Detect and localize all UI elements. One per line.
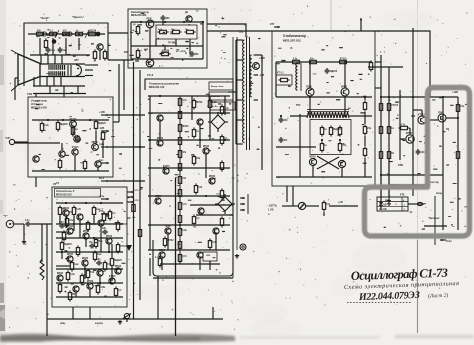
junction [339, 139, 341, 141]
resistor [93, 250, 102, 261]
svg-text:КТ2: КТ2 [99, 210, 104, 213]
svg-text:МЕВ.101: МЕВ.101 [211, 96, 221, 98]
ferrite bead [417, 202, 422, 205]
transformer TR2 winding zigzag [307, 112, 349, 118]
block box A4 Усилитель У [52, 187, 127, 307]
svg-text:+пВ: +пВ [338, 201, 343, 204]
arrow [101, 180, 109, 182]
wire bus [148, 95, 230, 97]
svg-text:МП42: МП42 [83, 230, 90, 233]
wire [323, 212, 325, 216]
wire [74, 156, 76, 171]
wire [161, 258, 163, 270]
arrow [101, 198, 109, 200]
resistor [76, 245, 79, 256]
wire [261, 55, 263, 170]
junction [96, 32, 101, 37]
resistor [178, 239, 181, 250]
resistor [163, 236, 174, 247]
resistor R69 [456, 102, 465, 113]
junction [149, 139, 151, 141]
junction [205, 195, 207, 197]
wire bus top [131, 21, 203, 23]
capacitor [279, 137, 289, 143]
arrow [101, 130, 109, 132]
svg-text:0,05: 0,05 [76, 209, 81, 211]
wire top bus [56, 202, 123, 204]
wire [306, 205, 319, 207]
resistor R17 [56, 120, 68, 131]
wire bus [148, 195, 230, 197]
resistor R1 [34, 30, 45, 35]
resistor [116, 242, 127, 253]
svg-text:МП26: МП26 [82, 258, 89, 260]
resistor [178, 161, 181, 172]
resistor [58, 205, 67, 216]
potentiometer arrow [55, 30, 59, 38]
wire [159, 121, 161, 140]
wire [41, 224, 43, 232]
wire [31, 223, 52, 225]
junction [380, 96, 382, 98]
wire stub [157, 276, 159, 319]
svg-text:корпус: корпус [95, 322, 104, 325]
transformer taps right [254, 54, 258, 56]
transistor [197, 119, 203, 125]
resistor [329, 125, 341, 136]
bridge rectifier VD1 [208, 112, 228, 132]
junction [139, 146, 141, 148]
wire bottom bus [56, 296, 123, 298]
wire [97, 167, 99, 171]
wire bus [33, 93, 86, 95]
svg-text:МД226: МД226 [330, 71, 338, 73]
wire [309, 62, 311, 88]
wire [196, 214, 233, 216]
svg-text:вх.X: вх.X [99, 177, 104, 180]
transistor T15 [418, 114, 426, 124]
resistor R12 [136, 24, 139, 35]
wire [299, 114, 301, 177]
resistor R51 [290, 58, 301, 63]
wire top bus [28, 33, 105, 35]
svg-text:общ.: общ. [60, 322, 66, 325]
wire [375, 61, 381, 63]
arrow [240, 203, 245, 205]
svg-text:конт 9д: конт 9д [430, 182, 439, 184]
junction [412, 96, 414, 98]
wire rail x133 [133, 62, 135, 312]
svg-text:КТ315: КТ315 [109, 276, 116, 278]
wire [89, 289, 91, 297]
svg-text:МП42: МП42 [63, 207, 70, 210]
wire bus mid [131, 45, 203, 47]
svg-text:Цепь: Цепь [385, 200, 391, 202]
wire stub [212, 307, 214, 319]
resistor R8 [103, 49, 106, 60]
transformer taps left [236, 39, 243, 41]
resistor [80, 273, 83, 284]
winding [250, 55, 252, 97]
svg-text:КТ 0,1: КТ 0,1 [277, 73, 284, 75]
wire [276, 96, 372, 98]
svg-text:Откл: Откл [446, 241, 452, 243]
svg-text:МД226: МД226 [60, 124, 68, 126]
transistor [159, 250, 166, 258]
svg-text:МП26: МП26 [92, 142, 99, 144]
svg-text:МД226: МД226 [64, 244, 72, 246]
svg-text:10н: 10н [460, 106, 465, 108]
wire bus [148, 249, 230, 251]
junction [62, 119, 64, 121]
svg-text:МП26: МП26 [115, 266, 122, 268]
svg-text:КТ7: КТ7 [270, 23, 275, 26]
svg-text:МП42: МП42 [57, 272, 64, 275]
wire bus [148, 112, 230, 114]
resistor R22 [83, 159, 86, 170]
svg-text:КТ315: КТ315 [120, 246, 127, 248]
capacitor C1 [161, 15, 171, 21]
wire face stub bottom [11, 85, 18, 91]
resistor [96, 283, 106, 294]
arrow [101, 213, 109, 215]
transistor [98, 220, 104, 226]
wire column [179, 96, 181, 264]
capacitor C9 [102, 228, 108, 234]
wire [380, 160, 382, 199]
wire [409, 128, 411, 134]
svg-text:МП42: МП42 [203, 145, 210, 148]
svg-text:ТР1: ТР1 [239, 31, 244, 34]
wire [424, 225, 447, 227]
wire [164, 46, 166, 50]
resistor [58, 282, 61, 293]
resistor [62, 230, 71, 241]
svg-text:ЭЛТ: ЭЛТ [74, 59, 79, 62]
resistor [60, 240, 72, 251]
winding [243, 40, 245, 143]
CRT deflection plates [68, 65, 81, 76]
junction [73, 223, 75, 225]
svg-text:МП26: МП26 [155, 196, 162, 198]
svg-text:пуск: пуск [99, 143, 105, 146]
wire HV rail x381 [380, 55, 382, 210]
potentiometer R23 [40, 259, 44, 280]
wire long rail [118, 64, 120, 122]
resistor R4 [73, 30, 84, 35]
junction [457, 117, 459, 119]
wire [23, 224, 25, 240]
wire [364, 97, 366, 100]
capacitor C2 [58, 47, 68, 53]
resistor [192, 98, 203, 109]
transistor [198, 208, 204, 214]
resistor R20 [101, 130, 104, 141]
svg-text:пв 2кВ: пв 2кВ [379, 205, 387, 207]
block box A5 развертка УЗ-2 [145, 79, 233, 276]
resistor [178, 174, 187, 185]
winding [296, 63, 298, 90]
capacitor [25, 219, 31, 226]
svg-text:пв 2кВ: пв 2кВ [379, 209, 387, 211]
wire [109, 146, 145, 148]
transformer TR2 core [307, 109, 349, 111]
small box power 3 [210, 102, 235, 110]
small box [203, 252, 217, 261]
wire [446, 117, 458, 119]
capacitor C14 [416, 149, 426, 155]
resistor R71 [398, 123, 409, 129]
wire [412, 150, 414, 160]
transformer TR1 core [246, 37, 248, 150]
wire [111, 244, 113, 257]
resistor R3 [60, 30, 71, 35]
junction [85, 202, 87, 204]
multivibrator sub-box [310, 120, 351, 155]
transistor [155, 196, 162, 204]
pot circle [68, 32, 72, 36]
resistor [192, 127, 199, 138]
resistor [220, 104, 229, 115]
svg-text:+12В: +12В [99, 111, 105, 114]
transistor T3 [146, 59, 154, 67]
wire [149, 96, 151, 250]
resistor [103, 260, 112, 271]
svg-text:Выпр. блок: Выпр. блок [211, 85, 224, 88]
wire rail x140 [139, 70, 141, 300]
resistor R7 [93, 49, 96, 60]
svg-text:4Р 1,5ПФ: 4Р 1,5ПФ [176, 50, 186, 53]
block box A6 Стабилизатор [272, 31, 375, 186]
wire [99, 50, 101, 60]
junction [388, 96, 390, 98]
resistor [178, 200, 187, 211]
divider sub-box [156, 25, 197, 39]
wire below CRT [33, 77, 35, 86]
transistor T7 [59, 151, 65, 157]
wire [349, 115, 372, 117]
wire [41, 232, 43, 262]
resistor [208, 238, 217, 249]
svg-text:МЕВ.201.012: МЕВ.201.012 [149, 86, 165, 89]
resistor [178, 135, 181, 146]
arrow [101, 114, 109, 116]
wire [162, 21, 164, 25]
capacitor [59, 222, 65, 228]
transistor [63, 207, 70, 216]
wire from table [408, 203, 424, 205]
ground [235, 254, 239, 258]
transistor T6 [72, 147, 79, 155]
svg-text:МП42: МП42 [67, 253, 74, 256]
block box A2 Калибратор [128, 9, 207, 68]
svg-text:Стабилизатор: Стабилизатор [283, 34, 306, 38]
svg-text:100к: 100к [100, 287, 106, 289]
transistor T0 [97, 44, 103, 50]
arrow [240, 197, 245, 199]
transistor [87, 281, 94, 289]
wire [75, 292, 77, 297]
wire long vertical x175 [175, 178, 177, 336]
transistor [157, 115, 163, 121]
wire grid bus [30, 54, 90, 56]
wire bus [56, 223, 123, 225]
gray highlighter annotation [365, 88, 470, 237]
transistor [73, 286, 79, 292]
svg-text:"Y": "Y" [3, 214, 8, 218]
svg-text:РЭВ: РЭВ [398, 164, 403, 167]
resistor [178, 187, 181, 198]
arrow [127, 191, 134, 193]
wire [113, 121, 119, 123]
resistor R63 [379, 101, 382, 112]
transistor [109, 276, 116, 284]
wire [434, 196, 436, 245]
wire HV rail x413 [412, 28, 414, 196]
transistor [83, 230, 90, 239]
wire transformer down [236, 37, 238, 250]
transistor [67, 225, 74, 234]
junction [65, 33, 67, 35]
wire [108, 244, 110, 252]
wire [228, 91, 236, 93]
input connector XS1 [6, 220, 24, 228]
resistor R19 [94, 119, 106, 130]
wire [209, 261, 211, 270]
svg-text:МЕВ.031.002: МЕВ.031.002 [31, 106, 47, 110]
block box A3 Усилитель [28, 97, 113, 177]
resistor [178, 213, 181, 224]
wire top bus [276, 61, 372, 63]
svg-text:МД226: МД226 [114, 260, 122, 262]
resistor [158, 256, 161, 267]
resistor R60 [363, 100, 366, 111]
wire [95, 131, 97, 143]
transistor [67, 253, 74, 262]
svg-text:КТ315: КТ315 [340, 58, 347, 60]
wire long vertical [46, 224, 48, 336]
wire [368, 66, 403, 68]
CRT V1 neck [40, 64, 85, 77]
wire bus bottom [47, 318, 223, 320]
resistor [220, 216, 223, 227]
wire [39, 38, 41, 55]
transistor [77, 214, 83, 220]
resistor R52 [307, 58, 318, 63]
svg-text:КТ315: КТ315 [391, 105, 398, 107]
svg-text:П306: П306 [306, 86, 312, 88]
wire exit right [207, 30, 272, 32]
svg-text:Генератор развертки: Генератор развертки [149, 82, 179, 86]
small box power 1 [209, 82, 233, 90]
transistor T5 [74, 136, 80, 142]
svg-text:пВ: пВ [446, 164, 449, 167]
resistor rail [138, 227, 141, 238]
transistor [165, 226, 171, 234]
cross-coupling wire [317, 157, 339, 169]
ground [22, 240, 26, 244]
wire [130, 22, 132, 59]
resistor [86, 220, 97, 231]
wire [426, 119, 438, 121]
wire [235, 40, 237, 144]
resistor [178, 226, 187, 237]
wire bottom inner [160, 263, 220, 265]
resistor R61 [363, 124, 372, 135]
wire [155, 39, 157, 46]
wire HV top bus [381, 96, 458, 98]
wire [413, 109, 422, 111]
wire [247, 194, 249, 214]
wire [341, 168, 343, 177]
cross-coupling wire [317, 156, 339, 169]
wire [108, 59, 134, 61]
junction [159, 95, 161, 97]
transistor [213, 228, 219, 234]
resistor [110, 256, 122, 267]
resistor [114, 286, 122, 297]
junction [309, 61, 311, 63]
arrow [127, 201, 134, 203]
svg-text:П306: П306 [146, 19, 152, 21]
svg-text:"Фокус": "Фокус" [40, 17, 50, 20]
resistor [70, 260, 79, 271]
wire rail [123, 60, 125, 110]
wire top bus right [272, 31, 430, 97]
wire h [381, 174, 443, 176]
resistor [65, 216, 74, 227]
CRT grid electrodes [49, 65, 65, 76]
resistor [178, 96, 187, 107]
arrow [274, 26, 280, 28]
wire HV rail x389 [388, 67, 390, 196]
svg-text:УУВ: УУВ [27, 92, 32, 96]
wire [85, 239, 87, 247]
wire [309, 96, 311, 114]
transistor [197, 252, 203, 258]
resistor [72, 205, 81, 216]
resistor rail [132, 202, 135, 213]
wire [191, 96, 193, 120]
neon lamp HL1 [298, 202, 305, 209]
resistor R54 [369, 60, 372, 71]
wire [175, 39, 177, 46]
resistor [192, 154, 201, 165]
transistor [203, 145, 210, 154]
transistor [106, 235, 113, 244]
resistor R16 [40, 121, 49, 132]
wire [329, 205, 358, 207]
svg-text:КТ315: КТ315 [72, 147, 79, 149]
wire [99, 276, 101, 285]
wire HV rail x458 [457, 97, 459, 230]
transistor [209, 176, 216, 184]
wire [79, 220, 81, 238]
svg-text:П306: П306 [165, 226, 171, 228]
svg-text:+12В: +12В [452, 91, 458, 94]
svg-text:МЕВ.203.080: МЕВ.203.080 [131, 14, 147, 17]
label frame [55, 189, 101, 198]
resistor [338, 141, 347, 152]
svg-text:КТ315: КТ315 [70, 119, 77, 121]
resistor [178, 252, 187, 263]
wire [286, 186, 288, 202]
svg-text:МЕВ.287.012: МЕВ.287.012 [283, 39, 301, 43]
svg-text:~: ~ [216, 120, 218, 124]
svg-text:МД226: МД226 [89, 30, 97, 32]
CRT V1 funnel [18, 54, 40, 85]
arrow [101, 146, 109, 148]
